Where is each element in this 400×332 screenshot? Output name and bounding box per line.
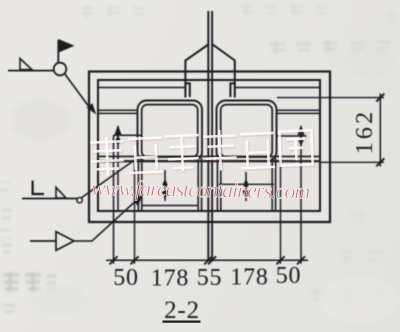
svg-text:2-2: 2-2 [164,297,200,324]
svg-text:178: 178 [230,265,268,291]
svg-text:50: 50 [113,265,139,291]
svg-text:50: 50 [276,263,302,289]
svg-text:162: 162 [352,109,378,155]
svg-text:www.fareastcontainers.com: www.fareastcontainers.com [91,175,310,204]
svg-text:178: 178 [151,266,189,292]
svg-text:55: 55 [197,265,223,291]
